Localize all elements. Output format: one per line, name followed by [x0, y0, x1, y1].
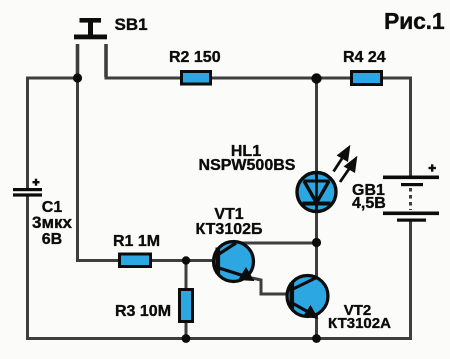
svg-text:КТ3102А: КТ3102А	[328, 315, 391, 332]
svg-text:R1 1M: R1 1M	[113, 233, 160, 250]
svg-text:R4 24: R4 24	[343, 49, 386, 66]
svg-text:6В: 6В	[42, 231, 62, 248]
svg-text:КТ3102Б: КТ3102Б	[195, 221, 262, 238]
svg-text:Рис.1: Рис.1	[384, 8, 445, 34]
svg-text:4,5В: 4,5В	[352, 195, 386, 212]
svg-text:SB1: SB1	[115, 15, 148, 34]
svg-text:R2 150: R2 150	[169, 49, 221, 66]
svg-text:3мкх: 3мкх	[32, 213, 73, 232]
svg-text:R3 10M: R3 10M	[115, 303, 171, 320]
svg-text:NSPW500BS: NSPW500BS	[199, 157, 296, 174]
